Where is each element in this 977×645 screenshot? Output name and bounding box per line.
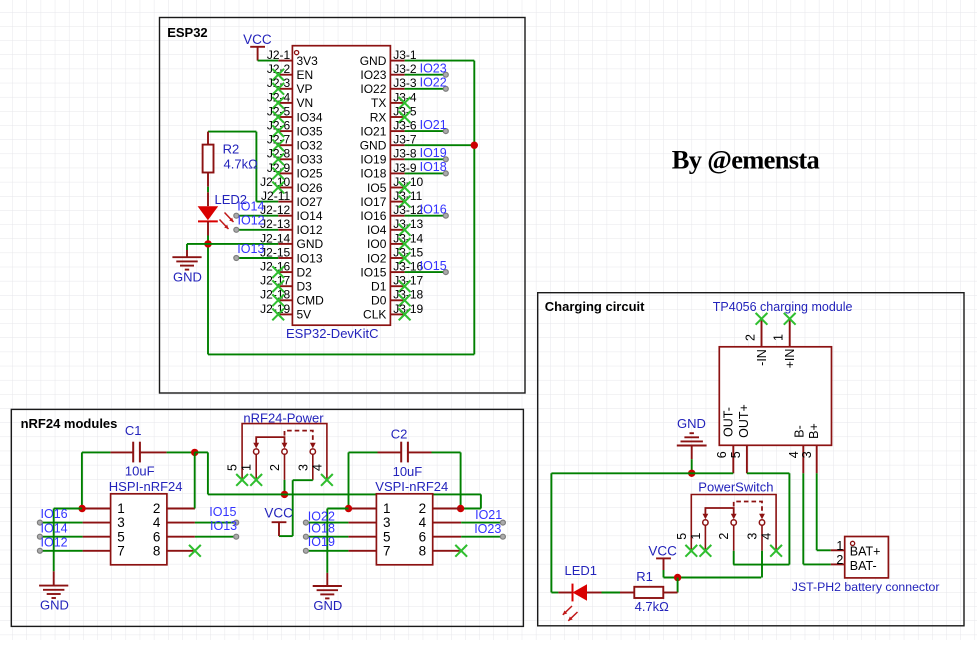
- svg-text:OUT-: OUT-: [722, 407, 736, 437]
- JST pin 1 (BAT+): [831, 539, 881, 559]
- net label IO21 wire (right): [405, 129, 449, 134]
- ESP32 pin J3-6 (IO21): [360, 119, 416, 139]
- ESP32 module U-ESP32 body: [292, 46, 390, 326]
- svg-text:GND: GND: [360, 139, 387, 153]
- wire PowerSwitch pin3 to VCC net: [761, 551, 763, 578]
- svg-text:IO17: IO17: [360, 195, 386, 209]
- VSPI pin 6: [419, 529, 462, 544]
- no-connect PowerSwitch pins 5,1,4: [685, 545, 782, 557]
- net label IO21 wire (VSPI right): [461, 520, 505, 525]
- svg-text:IO27: IO27: [297, 195, 323, 209]
- svg-text:IO21: IO21: [420, 118, 447, 132]
- ESP32 pin J2-4 (VN): [267, 90, 313, 110]
- ground GND (ESP32): [172, 244, 202, 285]
- LED D-LED1: [551, 584, 601, 602]
- svg-text:nRF24 modules: nRF24 modules: [21, 416, 118, 431]
- svg-text:JST-PH2 battery connector: JST-PH2 battery connector: [792, 580, 940, 594]
- svg-text:IO14: IO14: [297, 209, 323, 223]
- svg-text:3V3: 3V3: [297, 54, 319, 68]
- svg-text:IO14: IO14: [237, 200, 264, 214]
- switch PowerSwitch symbol: [691, 495, 776, 551]
- svg-text:3: 3: [117, 515, 125, 530]
- junction C1 right: [191, 449, 198, 456]
- svg-text:1: 1: [240, 464, 254, 471]
- HSPI pin 8: [153, 543, 195, 558]
- VSPI pin 2: [419, 501, 462, 516]
- svg-text:IO26: IO26: [297, 181, 323, 195]
- svg-text:R2: R2: [223, 141, 240, 156]
- Charging section frame: [538, 293, 964, 626]
- svg-text:ESP32: ESP32: [167, 25, 207, 40]
- wire GND row J2-14: [187, 243, 278, 245]
- svg-text:J3-19: J3-19: [393, 302, 423, 316]
- ESP32 pin J2-7 (IO32): [267, 133, 323, 153]
- svg-text:2: 2: [717, 533, 731, 540]
- svg-text:IO22: IO22: [420, 76, 447, 90]
- VSPI pin 8: [419, 543, 462, 558]
- ESP32 pin J3-18 (D0): [371, 288, 423, 308]
- svg-text:R1: R1: [636, 569, 653, 584]
- ESP32 pin J2-11 (IO27): [261, 189, 323, 209]
- JST pin 2 (BAT-): [831, 553, 877, 573]
- wire VCC net horizontal: [664, 577, 762, 579]
- net label IO23 wire (right): [405, 72, 449, 77]
- svg-text:2: 2: [743, 334, 757, 341]
- svg-text:8: 8: [419, 543, 427, 558]
- svg-text:CLK: CLK: [363, 308, 386, 322]
- net label IO12 wire (left): [234, 227, 278, 232]
- TP4056 pin 2 (-IN): [743, 319, 769, 366]
- svg-text:TP4056 charging module: TP4056 charging module: [713, 300, 853, 314]
- HSPI pin 7: [83, 543, 125, 558]
- svg-text:J2-18: J2-18: [260, 288, 290, 302]
- svg-text:4.7kΩ: 4.7kΩ: [635, 599, 670, 614]
- svg-text:VCC: VCC: [648, 544, 677, 559]
- svg-text:OUT+: OUT+: [737, 404, 751, 438]
- junction LED2/GND: [204, 240, 211, 247]
- svg-text:VP: VP: [297, 82, 313, 96]
- wire R2 to LED2: [207, 187, 209, 193]
- no-connect TP4056 pin 1: [784, 313, 796, 325]
- net label IO18 wire (VSPI): [303, 534, 348, 539]
- net label IO16 wire (HSPI): [37, 520, 82, 525]
- wire GND rail (charging): [551, 472, 733, 474]
- ESP32 pin J3-2 (IO23): [360, 62, 416, 82]
- ground GND (HSPI): [39, 571, 69, 612]
- svg-text:GND: GND: [297, 237, 324, 251]
- HSPI pin 2: [153, 501, 195, 516]
- net label IO13 wire (left): [234, 256, 278, 261]
- wire nRF24-Power pin2 to rail: [284, 480, 286, 495]
- svg-text:VCC: VCC: [264, 506, 293, 521]
- JST pin 1 marker: [851, 541, 855, 545]
- svg-text:BAT-: BAT-: [850, 559, 877, 573]
- svg-text:GND: GND: [173, 270, 202, 285]
- ESP32 pin J2-19 (5V): [260, 302, 311, 322]
- svg-text:2: 2: [153, 501, 161, 516]
- wire C1 right vertical to HSPI pin2: [194, 452, 196, 508]
- wire nRF24 VCC rail: [195, 452, 481, 508]
- resistor R1: [620, 587, 678, 598]
- TP4056 pin 3 (B+): [800, 423, 821, 473]
- svg-text:IO23: IO23: [360, 68, 386, 82]
- module HSPI-nRF24 body: [111, 494, 167, 565]
- svg-text:IO16: IO16: [360, 209, 386, 223]
- svg-text:IO15: IO15: [420, 259, 447, 273]
- nRF24 section frame: [11, 409, 523, 626]
- svg-text:IO18: IO18: [360, 167, 386, 181]
- module VSPI-nRF24 body: [376, 494, 432, 565]
- svg-text:4: 4: [310, 464, 324, 471]
- svg-text:ESP32-DevKitC: ESP32-DevKitC: [286, 326, 378, 341]
- ESP32 pin J3-10 (IO5): [367, 175, 423, 195]
- junction nRF24-Power pin2: [281, 491, 288, 498]
- svg-text:IO19: IO19: [420, 146, 447, 160]
- svg-text:1: 1: [383, 501, 391, 516]
- module TP4056 body: [719, 347, 831, 446]
- ESP32 pin 1 marker: [295, 51, 299, 55]
- ESP32 pin J2-3 (VP): [267, 76, 313, 96]
- power flag VCC (nRF24): [264, 506, 293, 537]
- HSPI pin 5: [83, 529, 125, 544]
- svg-text:IO18: IO18: [420, 160, 447, 174]
- power flag VCC (ESP32): [243, 32, 272, 61]
- net label IO18 wire (right): [405, 171, 449, 176]
- wire left loop vertical: [550, 473, 552, 592]
- svg-text:C2: C2: [391, 427, 408, 442]
- svg-text:J3-10: J3-10: [393, 175, 423, 189]
- wire LED1 to R1: [602, 592, 621, 594]
- svg-text:IO21: IO21: [360, 124, 386, 138]
- TP4056 pin 1 (+IN): [772, 319, 798, 369]
- ESP32 pin J3-9 (IO18): [360, 161, 416, 181]
- net label IO14 wire (HSPI): [37, 534, 82, 539]
- LED1 emission arrows: [563, 606, 578, 621]
- net label IO15 wire (right): [405, 270, 449, 275]
- wire B- to BAT-: [803, 473, 830, 564]
- no-connect TP4056 pin 2: [756, 313, 768, 325]
- svg-text:IO19: IO19: [308, 535, 335, 549]
- junction GND rail: [688, 470, 695, 477]
- svg-text:-IN: -IN: [755, 349, 769, 366]
- net label IO22 wire (right): [405, 86, 449, 91]
- svg-text:EN: EN: [297, 68, 314, 82]
- ESP32 pin J3-17 (D1): [371, 274, 423, 294]
- svg-text:B+: B+: [807, 423, 821, 439]
- svg-text:TX: TX: [371, 96, 386, 110]
- ESP32 pin J2-14 (GND): [260, 231, 323, 251]
- no-connect VSPI pin 8: [455, 545, 467, 557]
- svg-text:4: 4: [787, 451, 801, 458]
- svg-text:IO5: IO5: [367, 181, 387, 195]
- capacitor C1: [110, 442, 166, 463]
- svg-text:IO13: IO13: [210, 519, 237, 533]
- svg-text:RX: RX: [370, 110, 387, 124]
- svg-text:IO2: IO2: [367, 251, 387, 265]
- HSPI pin 4: [153, 515, 195, 530]
- svg-text:3: 3: [800, 451, 814, 458]
- svg-text:10uF: 10uF: [393, 464, 423, 479]
- wire HSPI pin1 to GND: [54, 509, 82, 572]
- svg-text:D0: D0: [371, 294, 387, 308]
- VSPI pin 3: [348, 515, 390, 530]
- svg-text:J2-10: J2-10: [260, 175, 290, 189]
- HSPI pin 6: [153, 529, 195, 544]
- svg-text:IO23: IO23: [420, 61, 447, 75]
- VSPI pin 4: [419, 515, 462, 530]
- net label IO13 wire (HSPI right): [195, 534, 239, 539]
- svg-text:J3-11: J3-11: [393, 189, 422, 203]
- ESP32 pin J3-3 (IO22): [360, 76, 416, 96]
- svg-text:8: 8: [153, 543, 161, 558]
- svg-text:IO13: IO13: [297, 251, 323, 265]
- ESP32 pin J3-5 (RX): [370, 104, 417, 124]
- svg-text:VSPI-nRF24: VSPI-nRF24: [375, 479, 448, 494]
- svg-text:4.7kΩ: 4.7kΩ: [224, 157, 259, 172]
- svg-text:5: 5: [383, 529, 391, 544]
- svg-text:IO18: IO18: [308, 522, 335, 536]
- wire LED2 cathode to junction: [207, 236, 209, 244]
- svg-text:6: 6: [715, 451, 729, 458]
- svg-text:IO21: IO21: [475, 508, 502, 522]
- svg-text:J3-18: J3-18: [393, 288, 423, 302]
- ESP32 pin J2-2 (EN): [267, 62, 313, 82]
- svg-text:5: 5: [226, 464, 240, 471]
- wire PowerSwitch pin2 down: [733, 551, 735, 565]
- svg-text:J2-16: J2-16: [260, 260, 290, 274]
- net label IO19 wire (right): [405, 157, 449, 162]
- svg-text:6: 6: [153, 529, 161, 544]
- ESP32 pin J2-17 (D3): [260, 274, 312, 294]
- wire GND left vertical: [207, 245, 209, 355]
- svg-text:IO12: IO12: [238, 214, 265, 228]
- svg-text:3: 3: [383, 515, 391, 530]
- svg-text:PowerSwitch: PowerSwitch: [698, 479, 773, 494]
- nRF24-Power pin numbers: [226, 464, 325, 471]
- ESP32 pin J3-14 (IO0): [367, 231, 423, 251]
- svg-text:4: 4: [760, 533, 774, 540]
- ESP32 pin J2-5 (IO34): [267, 104, 323, 124]
- svg-text:3: 3: [746, 533, 760, 540]
- svg-text:1: 1: [117, 501, 125, 516]
- svg-text:D3: D3: [297, 280, 313, 294]
- svg-text:B-: B-: [793, 425, 807, 438]
- svg-text:IO23: IO23: [474, 522, 501, 536]
- svg-text:IO16: IO16: [420, 202, 447, 216]
- wire C2 left: [349, 452, 378, 508]
- wire J3-7 GND: [405, 144, 475, 146]
- connector JST-PH2 body: [845, 537, 889, 578]
- LED2 emission arrows: [220, 213, 234, 230]
- svg-text:IO19: IO19: [360, 153, 386, 167]
- svg-text:2: 2: [419, 501, 427, 516]
- junction C2 right / VSPI pin2: [457, 505, 464, 512]
- svg-text:5: 5: [117, 529, 125, 544]
- svg-text:IO15: IO15: [360, 265, 386, 279]
- ESP32 pin J2-16 (D2): [260, 260, 312, 280]
- svg-text:IO33: IO33: [297, 153, 323, 167]
- svg-text:HSPI-nRF24: HSPI-nRF24: [109, 479, 183, 494]
- ESP32 pin J3-4 (TX): [371, 90, 417, 110]
- ESP32 pin J3-11 (IO17): [360, 189, 422, 209]
- svg-text:BAT+: BAT+: [850, 545, 881, 559]
- svg-text:IO12: IO12: [41, 535, 68, 549]
- TP4056 pin 6 (OUT-): [715, 407, 735, 473]
- svg-text:10uF: 10uF: [125, 464, 155, 479]
- ESP32 pin J3-16 (IO15): [360, 260, 423, 280]
- wire C2 right: [432, 452, 461, 508]
- svg-text:C1: C1: [125, 423, 142, 438]
- ESP32 pin J2-8 (IO33): [267, 147, 323, 167]
- wire vertical GND right: [473, 61, 475, 355]
- ground GND (charging): [677, 416, 707, 473]
- svg-text:GND: GND: [677, 416, 706, 431]
- svg-text:IO12: IO12: [297, 223, 323, 237]
- ESP32 pin J3-8 (IO19): [360, 147, 416, 167]
- svg-text:IO13: IO13: [237, 242, 264, 256]
- power flag VCC (charging): [648, 544, 677, 570]
- svg-text:J2-19: J2-19: [260, 302, 290, 316]
- svg-text:5: 5: [729, 451, 743, 458]
- ESP32 pin J3-1 (GND): [360, 48, 417, 68]
- wire VCC to net: [663, 570, 665, 578]
- VSPI pin 5: [348, 529, 390, 544]
- svg-text:IO16: IO16: [41, 507, 68, 521]
- svg-text:1: 1: [689, 533, 703, 540]
- svg-text:IO15: IO15: [209, 505, 236, 519]
- wire nRF24-Power pin3 to VCC: [279, 480, 313, 536]
- wire junction down to R1: [677, 578, 679, 593]
- ESP32 pin J2-1 (3V3): [267, 48, 318, 68]
- svg-text:GND: GND: [360, 54, 387, 68]
- wire OUT+ to switch pin2: [733, 473, 789, 564]
- svg-text:5V: 5V: [297, 308, 312, 322]
- ESP32 pin J2-10 (IO26): [260, 175, 323, 195]
- switch nRF24-Power symbol: [242, 424, 327, 480]
- ESP32 pin J3-15 (IO2): [367, 245, 423, 265]
- svg-text:CMD: CMD: [297, 294, 325, 308]
- ESP32 pin J2-9 (IO25): [267, 161, 323, 181]
- svg-text:D2: D2: [297, 265, 313, 279]
- wire C1 right to junction: [167, 451, 195, 453]
- svg-text:+IN: +IN: [783, 349, 797, 369]
- ESP32 pin J3-19 (CLK): [363, 302, 423, 322]
- svg-text:3: 3: [296, 464, 310, 471]
- svg-text:VCC: VCC: [243, 32, 272, 47]
- svg-text:2: 2: [268, 464, 282, 471]
- svg-text:7: 7: [383, 543, 391, 558]
- net label IO15 wire (HSPI right): [195, 520, 239, 525]
- ESP32 pin J2-12 (IO14): [260, 203, 323, 223]
- svg-text:D1: D1: [371, 280, 387, 294]
- no-connect HSPI pin 8: [189, 545, 201, 557]
- svg-text:J3-14: J3-14: [393, 231, 423, 245]
- TP4056 pin 4 (B-): [787, 425, 807, 473]
- net label IO19 wire (VSPI): [303, 548, 348, 553]
- svg-text:IO34: IO34: [297, 110, 323, 124]
- resistor R2: [203, 132, 214, 187]
- svg-text:5: 5: [675, 533, 689, 540]
- wire VSPI pin1 to GND: [327, 509, 348, 573]
- svg-text:1: 1: [772, 334, 786, 341]
- ESP32 pin J2-15 (IO13): [260, 245, 323, 265]
- HSPI pin 3: [83, 515, 125, 530]
- svg-text:J2-17: J2-17: [260, 274, 290, 288]
- junction HSPI pin1: [78, 505, 85, 512]
- svg-text:Charging circuit: Charging circuit: [545, 299, 645, 314]
- PowerSwitch pin numbers: [675, 533, 774, 540]
- svg-text:J3-13: J3-13: [393, 217, 423, 231]
- VSPI pin 1: [348, 501, 390, 516]
- wire GND bottom horizontal: [208, 353, 474, 355]
- net label IO12 wire (HSPI): [37, 548, 82, 553]
- svg-text:1: 1: [836, 539, 843, 553]
- svg-text:LED1: LED1: [565, 563, 598, 578]
- svg-text:J3-15: J3-15: [393, 245, 423, 259]
- svg-text:GND: GND: [313, 598, 342, 613]
- svg-text:IO4: IO4: [367, 223, 387, 237]
- ground GND (VSPI): [313, 573, 343, 613]
- net label IO23 wire (VSPI right): [461, 534, 505, 539]
- net label IO16 wire (right): [405, 213, 449, 218]
- svg-text:GND: GND: [40, 598, 69, 613]
- net label IO14 wire (left): [234, 213, 278, 218]
- VSPI pin 7: [348, 543, 390, 558]
- svg-text:2: 2: [836, 553, 843, 567]
- ESP32 pin J3-13 (IO4): [367, 217, 423, 237]
- svg-text:IO14: IO14: [41, 521, 68, 535]
- ESP32 section frame: [160, 18, 526, 394]
- junction VCC/R1: [674, 574, 681, 581]
- HSPI pin 1: [83, 501, 125, 516]
- svg-text:IO0: IO0: [367, 237, 387, 251]
- wire C1 left: [82, 452, 111, 508]
- svg-text:IO22: IO22: [360, 82, 386, 96]
- LED D-LED2: [198, 192, 219, 235]
- svg-text:IO35: IO35: [297, 124, 323, 138]
- capacitor C2: [378, 442, 432, 463]
- svg-text:IO32: IO32: [297, 139, 323, 153]
- wire B+ to BAT+: [817, 473, 831, 550]
- ESP32 pin J3-12 (IO16): [360, 203, 423, 223]
- wire J2-11 elbow: [208, 132, 278, 202]
- junction GND at J3-7: [471, 142, 478, 149]
- svg-text:By @emensta: By @emensta: [672, 145, 820, 175]
- TP4056 pin 5 (OUT+): [729, 404, 751, 473]
- svg-text:IO25: IO25: [297, 167, 323, 181]
- svg-text:J3-17: J3-17: [393, 274, 423, 288]
- svg-text:4: 4: [419, 515, 427, 530]
- junction VSPI pin1: [345, 505, 352, 512]
- ESP32 pin J2-18 (CMD): [260, 288, 324, 308]
- wire VCC to J2-1: [258, 60, 279, 62]
- svg-text:6: 6: [419, 529, 427, 544]
- svg-text:VN: VN: [297, 96, 314, 110]
- net label IO22 wire (VSPI): [303, 520, 348, 525]
- ESP32 pin J2-13 (IO12): [260, 217, 323, 237]
- wire J3-1 GND to vertical: [405, 60, 475, 62]
- ESP32 pin J3-7 (GND): [360, 133, 417, 153]
- no-connect nRF24-Power pins 5,1,4: [236, 474, 333, 486]
- svg-text:7: 7: [117, 543, 125, 558]
- ESP32 pin J2-6 (IO35): [267, 119, 323, 139]
- svg-text:4: 4: [153, 515, 161, 530]
